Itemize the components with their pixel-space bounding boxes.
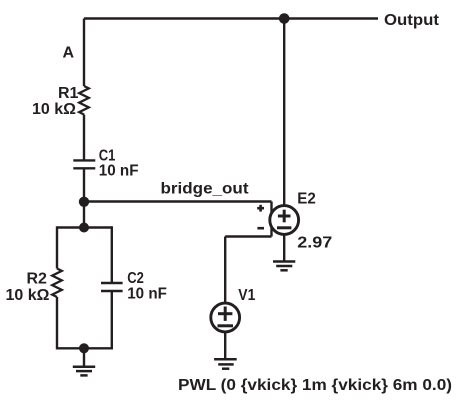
E2 control plus sign (257, 205, 264, 212)
V1 value PWL spec (178, 377, 452, 394)
svg-text:Output: Output (384, 12, 440, 29)
svg-text:E2: E2 (297, 190, 316, 207)
wire E2 bottom to ground (283, 234, 285, 261)
wire left branch upper (56, 226, 58, 268)
node Output label (384, 12, 440, 29)
wire V1 bottom to ground (224, 332, 226, 359)
junction box bottom (79, 343, 89, 353)
wire C1 to parallel box top (83, 168, 85, 227)
resistor R1 (79, 86, 89, 115)
dependent source E2 (270, 206, 299, 235)
wire bridge_out horizontal to E2 plus control (84, 200, 272, 202)
svg-text:10 nF: 10 nF (99, 163, 139, 180)
E2 value 2.97 (297, 234, 332, 251)
independent source V1 (211, 303, 240, 332)
resistor R2 (52, 269, 62, 298)
wire box bottom horizontal (57, 347, 112, 349)
ground below R2 C2 (73, 367, 95, 376)
svg-text:V1: V1 (238, 287, 255, 304)
capacitor C1 (73, 160, 95, 168)
node A label (63, 45, 75, 62)
wire top junction down to E2 (283, 19, 285, 206)
wire box top horizontal (57, 226, 112, 228)
junction box top (79, 223, 89, 233)
wire right branch upper (111, 226, 113, 283)
wire E2 minus control to V1 horizontal (225, 235, 271, 237)
wire left branch lower (56, 297, 58, 350)
R1 value 10 kOhm (32, 101, 76, 118)
node bridge_out label (161, 180, 250, 197)
wire box bottom to ground (83, 348, 85, 366)
ground below V1 (214, 359, 237, 368)
svg-text:bridge_out: bridge_out (161, 180, 250, 197)
R1 label (58, 85, 79, 102)
wire down to V1 top (224, 237, 226, 304)
wire right branch lower (111, 291, 113, 350)
C2 value 10 nF (127, 285, 167, 302)
C2 label (127, 270, 144, 287)
svg-text:10 kΩ: 10 kΩ (32, 101, 76, 118)
R2 value 10 kOhm (6, 287, 50, 304)
junction bridge_out (79, 197, 89, 207)
wire E2 control left vertical (270, 202, 272, 237)
svg-text:R1: R1 (58, 85, 79, 102)
svg-text:R2: R2 (27, 270, 48, 287)
svg-text:A: A (63, 45, 75, 62)
V1 label (238, 287, 255, 304)
E2 label (297, 190, 316, 207)
svg-text:PWL (0 {vkick} 1m {vkick} 6m 0: PWL (0 {vkick} 1m {vkick} 6m 0.0) (178, 377, 452, 394)
R2 label (27, 270, 48, 287)
E2 control minus sign (257, 227, 264, 230)
wire top horizontal Output net (84, 17, 378, 19)
junction output node (279, 13, 290, 24)
C1 value 10 nF (99, 163, 139, 180)
wire R1 to C1 (83, 115, 85, 161)
ground below E2 (273, 262, 295, 271)
svg-text:2.97: 2.97 (297, 234, 332, 251)
svg-text:10 nF: 10 nF (127, 285, 167, 302)
svg-text:10 kΩ: 10 kΩ (6, 287, 50, 304)
wire left vertical from top to R1 (83, 19, 85, 87)
capacitor C2 (101, 283, 123, 291)
C1 label (99, 148, 116, 165)
